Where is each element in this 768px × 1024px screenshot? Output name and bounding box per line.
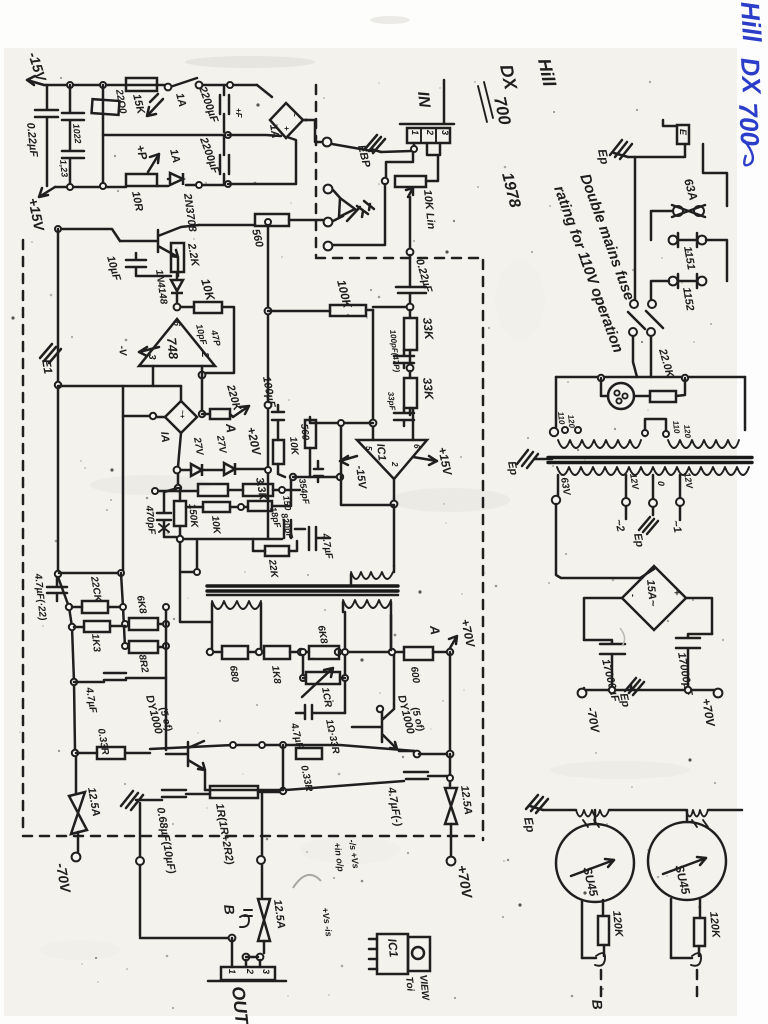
svg-text:2: 2 bbox=[425, 129, 435, 135]
resistor 10K h bbox=[186, 506, 203, 509]
capacitor 4.7uF mid bbox=[309, 527, 330, 550]
svg-text:10K: 10K bbox=[287, 436, 300, 456]
svg-text:560: 560 bbox=[298, 423, 311, 441]
resistor 3.3K bbox=[248, 501, 272, 511]
junction bbox=[174, 304, 181, 311]
svg-text:0: 0 bbox=[656, 481, 666, 486]
terminal E bbox=[663, 120, 677, 126]
pot 1KR bbox=[303, 612, 345, 713]
pot 10K Lin bbox=[395, 176, 426, 187]
wire y423 bbox=[310, 420, 373, 423]
capacitor 0.68uF bbox=[136, 790, 210, 800]
resistor 0.33R right bbox=[296, 748, 322, 759]
wire y477 bbox=[293, 476, 341, 479]
arrow +P bbox=[148, 154, 159, 172]
dashed box bottom bbox=[23, 835, 480, 838]
fuse 1151 bbox=[669, 236, 678, 245]
transformer core driver bbox=[207, 586, 398, 591]
wire out fuse top bbox=[261, 794, 264, 856]
capacitor 2200uF bottom bbox=[220, 135, 229, 185]
arrow -15V bbox=[340, 456, 357, 465]
terminal bbox=[324, 242, 333, 251]
coil 1 bbox=[576, 810, 609, 817]
fuse 12.5A left bbox=[75, 757, 78, 794]
svg-text:B: B bbox=[589, 999, 606, 1011]
wire speaker down x140 bbox=[139, 803, 142, 856]
wire diamond bottom bbox=[178, 433, 181, 467]
svg-text:Hill: Hill bbox=[735, 1, 767, 44]
resistor 22K lower bbox=[253, 541, 297, 551]
svg-text:B: B bbox=[221, 904, 238, 916]
capacitor 0.22uF input bbox=[396, 287, 426, 304]
resistor 560 v bbox=[305, 420, 316, 448]
meter SU45 right bbox=[648, 822, 726, 900]
ground Ep top bbox=[610, 140, 632, 159]
svg-text:1022: 1022 bbox=[71, 123, 83, 144]
wire x394 coil to 652 bbox=[390, 615, 393, 650]
primary taps bbox=[562, 427, 568, 433]
junction bbox=[100, 82, 106, 88]
svg-text:2: 2 bbox=[390, 461, 399, 467]
resistor 680 bbox=[222, 646, 248, 659]
transformer core bbox=[548, 456, 752, 459]
svg-text:1: 1 bbox=[410, 130, 420, 135]
wire to diamond bbox=[180, 386, 183, 401]
svg-text:2: 2 bbox=[245, 968, 255, 974]
resistor 6K8 mid bbox=[309, 646, 339, 659]
capacitor 4.7uF driver bbox=[296, 705, 345, 719]
wire bottom rail bbox=[583, 689, 714, 692]
wire neutral down bbox=[634, 157, 637, 300]
resistor 10K feedback bbox=[181, 306, 194, 309]
resistor 6K8 bbox=[129, 618, 158, 630]
svg-text:DX: DX bbox=[735, 57, 767, 96]
transistor DY1000 left bbox=[166, 741, 205, 790]
node A arrow bbox=[230, 406, 249, 417]
capacitor 1023 bbox=[62, 151, 84, 187]
connector OUT bbox=[221, 967, 275, 980]
switch DPST bbox=[630, 300, 638, 308]
bridge IA small bbox=[165, 401, 197, 433]
rail y745 bbox=[150, 745, 415, 751]
coil 2 bbox=[686, 810, 708, 817]
resistor 33K bbox=[409, 310, 412, 318]
arrow -V bbox=[139, 347, 159, 356]
capacitor 100pF bbox=[394, 350, 414, 368]
wire to bridge bbox=[257, 85, 272, 97]
dashed boundary x316 bbox=[315, 85, 318, 256]
secondary terminals bbox=[557, 475, 560, 496]
resistor 10K v bbox=[273, 440, 284, 464]
resistor 22CK bbox=[72, 606, 125, 609]
svg-text:IN: IN bbox=[414, 91, 433, 109]
terminal bbox=[323, 138, 332, 147]
wire bbox=[228, 137, 296, 184]
bridge rectifier IA bbox=[270, 103, 303, 138]
svg-text:33K: 33K bbox=[420, 377, 436, 402]
hook C bbox=[595, 953, 605, 966]
svg-text:A: A bbox=[427, 624, 443, 636]
resistor 100K bbox=[268, 310, 330, 313]
resistor 15K bbox=[126, 78, 157, 91]
wire pin3 bbox=[152, 366, 155, 386]
svg-text:E1: E1 bbox=[39, 358, 55, 375]
wire bbox=[706, 240, 727, 281]
resistor 150K bbox=[179, 488, 182, 501]
capacitor 2200uF top bbox=[220, 85, 229, 132]
wire IC1 out down bbox=[393, 507, 396, 566]
bridge rectifier 15A bbox=[622, 566, 686, 630]
svg-text:3: 3 bbox=[261, 969, 271, 974]
svg-text:1K3: 1K3 bbox=[89, 633, 102, 653]
wire 560 row bbox=[199, 220, 323, 225]
transistor DY1000 right bbox=[352, 655, 414, 751]
ground Ep caps bbox=[625, 678, 644, 695]
svg-text:1,23: 1,23 bbox=[58, 159, 70, 177]
wire x166 bbox=[165, 607, 168, 750]
wire pin2 down bbox=[201, 366, 204, 414]
wire sec taps down bbox=[626, 506, 680, 520]
wire left vertical x58 bbox=[57, 229, 60, 574]
wire wiper down bbox=[409, 197, 412, 248]
legend IC1 package bbox=[377, 934, 408, 974]
svg-text:~2: ~2 bbox=[612, 518, 626, 533]
capacitor 1022 bbox=[62, 85, 84, 150]
node +15V arrow bbox=[39, 187, 55, 197]
svg-text:+F: +F bbox=[234, 108, 243, 119]
fuse 12.5A right bbox=[445, 788, 457, 824]
resistor 220K bbox=[202, 413, 210, 416]
ground speaker bbox=[121, 791, 143, 810]
resistor 0.33R bbox=[76, 752, 150, 755]
ground Ep transformer bbox=[517, 450, 552, 468]
wire y386 bbox=[58, 385, 181, 388]
wire lower rail y186 bbox=[55, 185, 228, 187]
wire pot left down bbox=[333, 184, 385, 245]
arrow +15V bbox=[413, 456, 437, 465]
fuse 63A bbox=[673, 206, 683, 216]
meter SU45 left bbox=[556, 824, 634, 902]
meter wires right bbox=[671, 898, 700, 958]
svg-text:Toi: Toi bbox=[403, 976, 415, 992]
svg-text:~+: ~+ bbox=[178, 410, 185, 418]
svg-text:~: ~ bbox=[290, 112, 299, 117]
hook C right bbox=[691, 953, 701, 966]
wire x123 down bbox=[122, 416, 125, 573]
svg-text:A: A bbox=[223, 422, 239, 434]
svg-text:110: 110 bbox=[556, 411, 566, 425]
fuse 12.5A output bbox=[258, 899, 270, 941]
resistor 1K8 bbox=[264, 646, 290, 659]
resistor 600 bbox=[404, 647, 433, 660]
winding right above bbox=[351, 572, 393, 579]
op-amp 748 bbox=[139, 319, 215, 366]
junction bbox=[67, 82, 73, 88]
svg-text:10K: 10K bbox=[209, 515, 222, 535]
resistor 1K3 bbox=[74, 626, 125, 627]
wire live down bbox=[703, 144, 727, 206]
speaker line bbox=[286, 781, 404, 790]
wire bbox=[386, 152, 413, 177]
svg-text:700: 700 bbox=[733, 102, 765, 147]
terminal bbox=[324, 218, 333, 227]
resistor 22.0K bbox=[634, 395, 650, 398]
resistor 8R2 bbox=[129, 641, 158, 653]
svg-text:IC1: IC1 bbox=[374, 443, 388, 461]
ground Ep meters bbox=[526, 795, 548, 813]
capacitor 4.7uF(-) bbox=[404, 772, 450, 779]
svg-text:E: E bbox=[678, 129, 688, 136]
svg-text:+: + bbox=[282, 126, 291, 131]
svg-text:-: - bbox=[628, 594, 638, 597]
svg-text:+: + bbox=[672, 590, 682, 596]
wire bbox=[228, 135, 281, 136]
winding right below bbox=[343, 600, 391, 608]
ground E1 bbox=[40, 344, 61, 363]
svg-text:3: 3 bbox=[440, 130, 450, 135]
svg-text:5: 5 bbox=[364, 446, 373, 451]
ground Ep secondary bbox=[639, 517, 658, 534]
terminal -70V bbox=[583, 688, 586, 690]
capacitor 10uF bbox=[126, 253, 171, 276]
wire y505 bbox=[341, 426, 394, 505]
wires IC1 bbox=[394, 409, 413, 501]
terminal bbox=[324, 185, 333, 194]
svg-text:~1: ~1 bbox=[669, 519, 683, 534]
dashed box right bbox=[482, 260, 485, 840]
fuse 1A switch bbox=[170, 78, 197, 87]
capacitor 17000uF left bbox=[584, 640, 625, 688]
wire top rail y85 bbox=[44, 84, 257, 87]
wire diamond left bbox=[123, 386, 165, 417]
meter supply rail bbox=[543, 809, 742, 812]
wire x450 down bbox=[449, 754, 452, 786]
svg-text:33K: 33K bbox=[420, 317, 436, 342]
dashed boundary top y258 bbox=[316, 257, 483, 260]
pencil smudge bbox=[293, 875, 321, 888]
capacitor 354pF bbox=[314, 461, 323, 482]
arrow -V bbox=[147, 94, 163, 116]
wire y573 bbox=[59, 572, 121, 575]
wire 63V to bridge bbox=[556, 504, 654, 578]
wire y539 bbox=[180, 539, 253, 622]
junction bbox=[227, 82, 233, 88]
primary centre taps bbox=[645, 419, 666, 436]
capacitor 0.22uF bbox=[35, 85, 58, 186]
svg-text:120: 120 bbox=[566, 414, 576, 429]
resistor 560 bbox=[255, 214, 289, 226]
svg-text:IA: IA bbox=[158, 431, 171, 443]
transformer primary winding bbox=[558, 440, 641, 448]
op-amp IC1 bbox=[357, 440, 427, 479]
node -15V arrow bbox=[27, 76, 44, 85]
capacitor 33pF bbox=[394, 408, 414, 426]
wire mid rail y135 bbox=[103, 134, 224, 137]
svg-text:OUT: OUT bbox=[228, 985, 252, 1024]
resistor row y490 bbox=[155, 490, 300, 491]
wire x123 bbox=[121, 573, 125, 647]
resistor 33K second bbox=[409, 371, 412, 378]
wire left end down bbox=[555, 377, 558, 427]
thermistor lamp bbox=[601, 378, 608, 396]
svg-text:1: 1 bbox=[227, 969, 237, 974]
terminal +70V bbox=[714, 689, 723, 698]
wire right end down bbox=[744, 377, 747, 430]
resistor 2.2K bbox=[171, 243, 184, 272]
resistor 220 bbox=[92, 99, 120, 115]
zener 27V bbox=[181, 469, 191, 472]
wire x373 bbox=[372, 310, 375, 440]
wire earth link bbox=[628, 144, 685, 157]
connector IN bbox=[400, 80, 454, 124]
wire primary feed y377 bbox=[556, 376, 745, 379]
capacitor 100uF bbox=[272, 405, 284, 440]
fuse 1152 bbox=[669, 277, 678, 286]
winding left below bbox=[212, 601, 261, 609]
svg-text:6: 6 bbox=[412, 444, 421, 449]
wire bridge minus bbox=[584, 598, 622, 640]
wire to ground bbox=[381, 151, 411, 152]
wire bridge out bbox=[303, 120, 321, 142]
wire bbox=[651, 281, 669, 300]
wire base bbox=[58, 229, 120, 241]
meter wires left bbox=[582, 900, 603, 958]
wire feedback bbox=[206, 307, 234, 373]
svg-text:110: 110 bbox=[671, 420, 681, 434]
wire x450 bbox=[449, 652, 452, 750]
capacitor 17000uF right bbox=[676, 634, 712, 690]
capacitor 18pF cluster bbox=[253, 520, 305, 539]
resistor 10R bbox=[126, 174, 157, 186]
wire left slant bbox=[58, 577, 75, 750]
wire B to out bbox=[231, 938, 234, 967]
transistor 2N3708 bbox=[120, 225, 199, 276]
wire bbox=[651, 211, 673, 240]
resistor 1R bbox=[210, 786, 258, 798]
ground EBP bbox=[365, 135, 385, 153]
LED bbox=[339, 198, 355, 217]
loop 470pF bbox=[177, 474, 180, 488]
wire bbox=[102, 85, 105, 186]
dashed box left bbox=[22, 240, 25, 833]
pin wires bbox=[414, 143, 440, 181]
wire emitter rail down bbox=[205, 745, 283, 790]
capacitor 4.7uF(.22) bbox=[47, 578, 67, 601]
zener 27V second bbox=[202, 469, 224, 472]
diode 1N4148 bbox=[176, 272, 179, 279]
transformer secondary winding bbox=[557, 467, 749, 475]
node A arrow +70V bbox=[449, 636, 457, 648]
svg-text:748: 748 bbox=[164, 337, 181, 361]
svg-text:IC1: IC1 bbox=[385, 938, 401, 958]
capacitor 4.7uF bbox=[74, 673, 166, 682]
wire x268 vertical bbox=[267, 222, 270, 539]
svg-text:2: 2 bbox=[199, 351, 210, 358]
diode 1A bbox=[167, 178, 170, 181]
svg-text:120: 120 bbox=[682, 424, 692, 439]
wire bridge plus bbox=[686, 598, 712, 634]
wire y652 bbox=[207, 651, 450, 654]
